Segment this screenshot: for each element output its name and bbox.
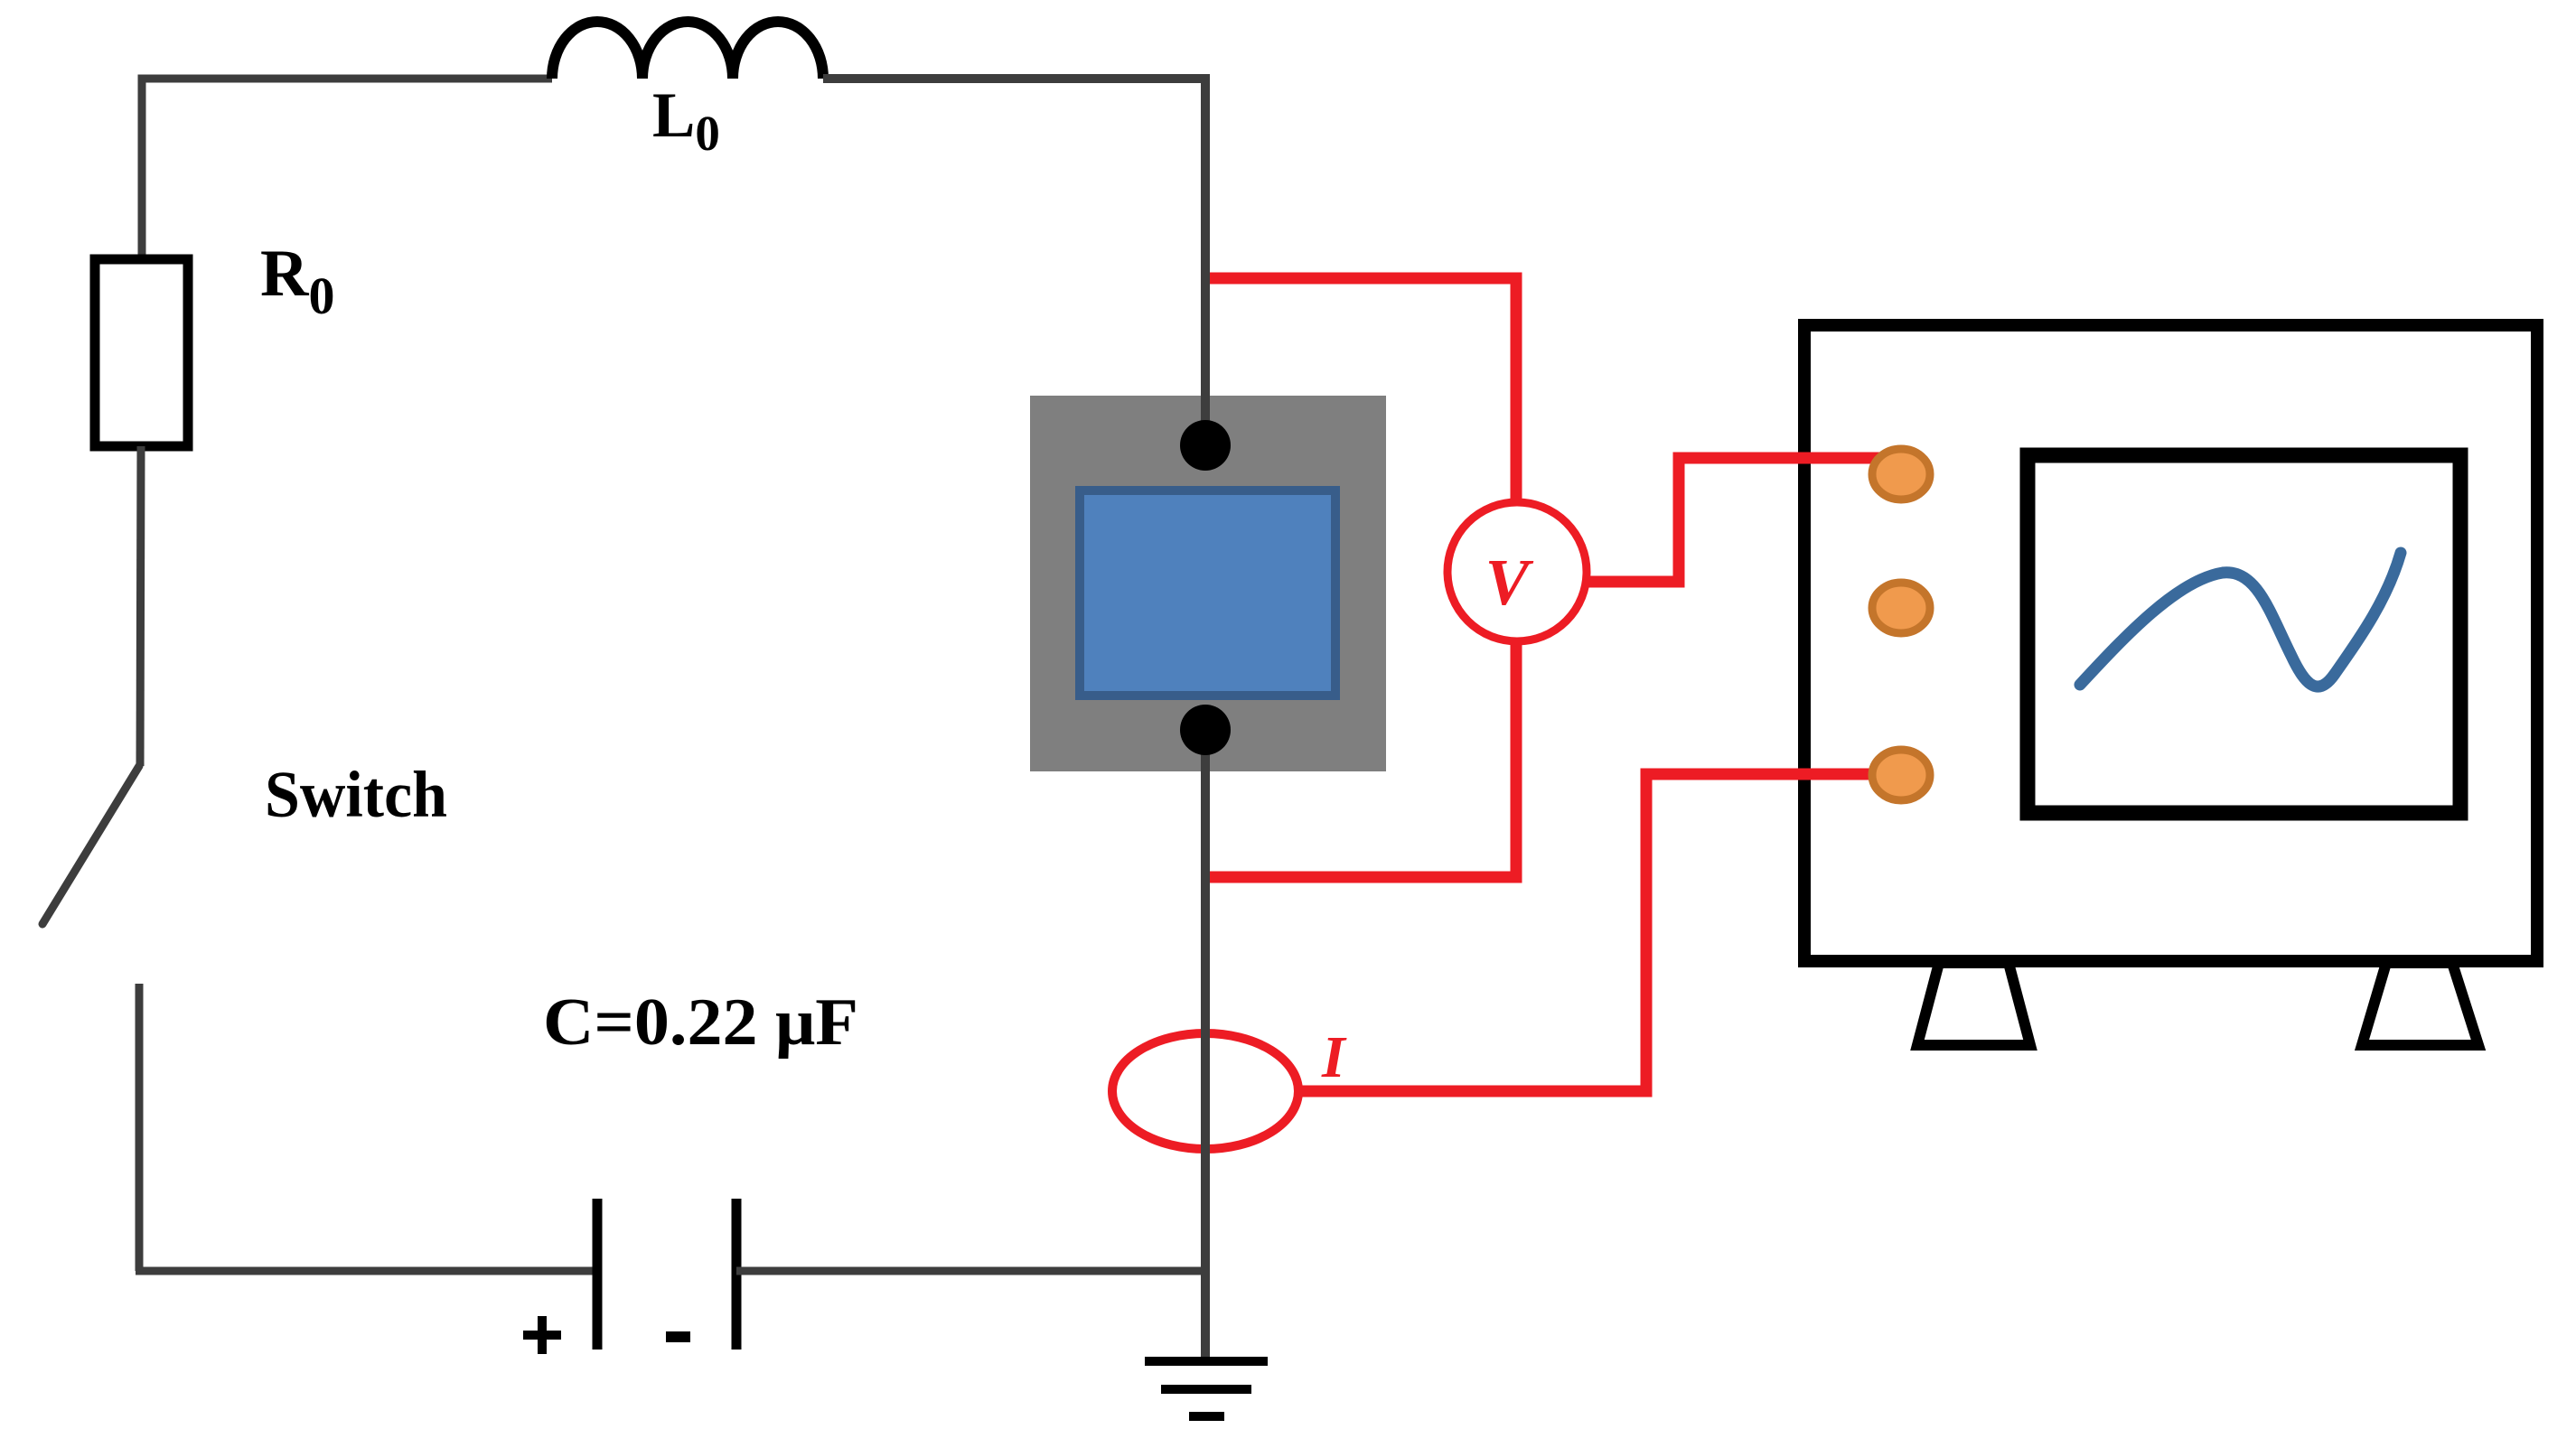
DUT sample die (blue) — [1080, 490, 1335, 696]
current probe I (red ellipse) — [1112, 1033, 1298, 1149]
ground bar 1 — [1145, 1357, 1268, 1366]
wire: resistor to switch pivot — [140, 446, 141, 766]
capacitor plate (-) — [732, 1199, 742, 1350]
voltmeter V — [1447, 502, 1587, 641]
wire: bottom left to capacitor — [136, 1267, 597, 1275]
DUT sample holder (gray package) — [1030, 396, 1386, 771]
svg-text:L0: L0 — [652, 80, 720, 161]
oscilloscope left leg — [1917, 963, 2030, 1045]
resistor R0 — [95, 259, 188, 446]
oscilloscope screen — [2028, 455, 2460, 813]
switch blade — [42, 766, 139, 924]
red wire: voltmeter sense top (node A to V) — [1205, 278, 1516, 504]
red wire: voltmeter sense bottom (V to node B) — [1205, 640, 1516, 877]
label + (plus sign) — [523, 1316, 561, 1354]
capacitor plate (+) — [593, 1199, 603, 1350]
wire: inductor to top-right corner down to DUT top — [823, 79, 1205, 434]
ground bar 2 — [1161, 1385, 1251, 1394]
scope CH2 jack — [1872, 583, 1930, 633]
scope CH1 jack — [1872, 449, 1930, 500]
ground bar 3 — [1189, 1412, 1224, 1421]
DUT top terminal dot — [1180, 420, 1231, 471]
svg-text:C=0.22 μF: C=0.22 μF — [543, 985, 858, 1060]
wire: DUT bottom through probe to ground — [1201, 730, 1210, 1361]
svg-text:I: I — [1321, 1024, 1347, 1090]
svg-text:Switch: Switch — [265, 758, 447, 831]
oscilloscope U1 body — [1804, 325, 2537, 961]
scope CH3 jack — [1872, 750, 1930, 800]
DUT bottom terminal dot — [1180, 705, 1231, 755]
wire: capacitor to center node — [736, 1267, 1210, 1275]
red wire: voltmeter output to scope CH1 jack — [1585, 458, 1901, 582]
red wire: current probe output to scope CH3 jack — [1297, 774, 1901, 1091]
wire: switch lower terminal — [136, 984, 144, 1271]
svg-text:R0: R0 — [260, 237, 334, 325]
oscilloscope right leg — [2362, 963, 2478, 1045]
svg-text:V: V — [1485, 546, 1534, 619]
inductor L0 — [552, 22, 823, 79]
wire: top left horizontal + left vertical — [142, 79, 552, 259]
label - (minus sign) — [666, 1331, 690, 1342]
oscilloscope waveform trace — [2080, 553, 2401, 686]
